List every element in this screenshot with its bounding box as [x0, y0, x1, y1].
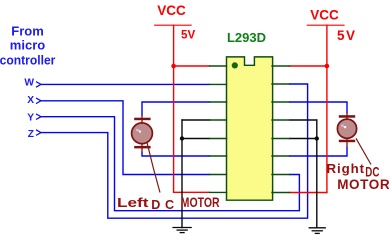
svg-text:Left: Left — [117, 196, 148, 211]
svg-text:X: X — [27, 95, 34, 106]
svg-text:W: W — [24, 78, 34, 89]
svg-text:MOTOR: MOTOR — [181, 195, 220, 211]
svg-text:Y: Y — [27, 112, 34, 123]
svg-text:Right: Right — [327, 161, 365, 176]
svg-text:From: From — [11, 23, 44, 38]
svg-text:5V: 5V — [337, 28, 357, 43]
svg-text:5V: 5V — [181, 29, 195, 42]
svg-text:controller: controller — [0, 53, 55, 67]
svg-text:VCC: VCC — [157, 3, 186, 18]
svg-text:VCC: VCC — [310, 8, 339, 23]
svg-text:DC: DC — [151, 198, 178, 212]
svg-text:L293D: L293D — [227, 30, 266, 45]
svg-text:MOTOR: MOTOR — [337, 177, 390, 192]
svg-text:Z: Z — [28, 129, 34, 140]
svg-text:micro: micro — [10, 38, 45, 53]
